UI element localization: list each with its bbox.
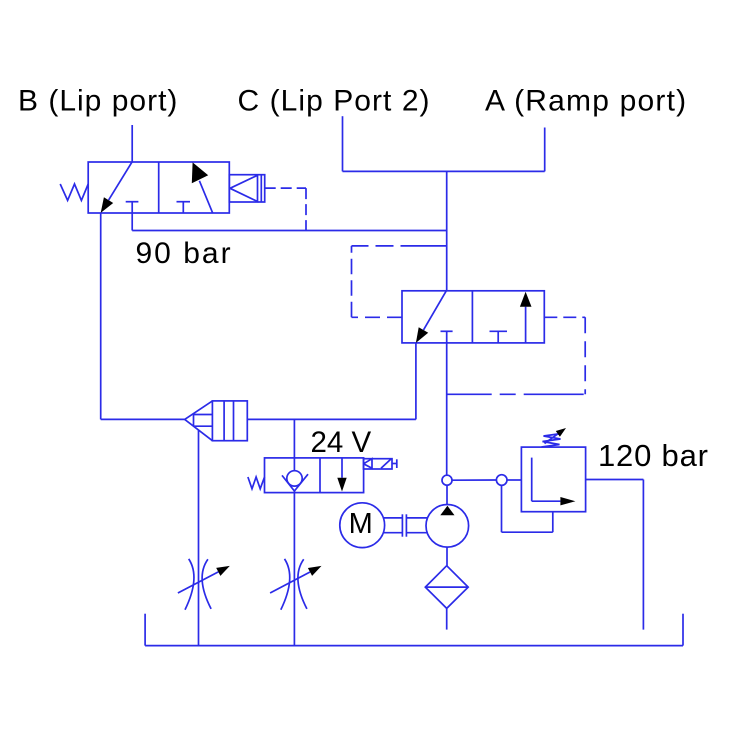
svg-text:B (Lip port): B (Lip port): [18, 85, 178, 118]
svg-text:M: M: [349, 508, 373, 540]
svg-text:C (Lip Port 2): C (Lip Port 2): [238, 85, 431, 118]
svg-text:90 bar: 90 bar: [136, 237, 233, 270]
svg-text:120 bar: 120 bar: [598, 438, 709, 473]
svg-text:24 V: 24 V: [311, 426, 372, 459]
svg-text:A (Ramp port): A (Ramp port): [485, 85, 687, 118]
